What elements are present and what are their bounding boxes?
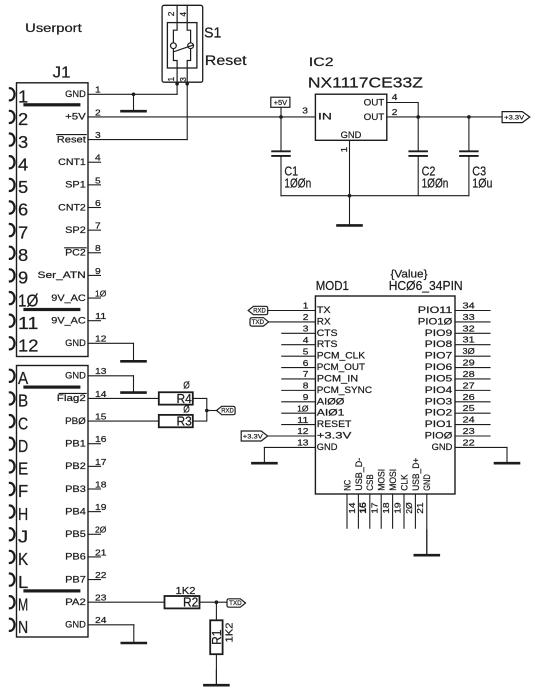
- J1 contact arc row J: [10, 528, 15, 540]
- wire J1 pin24 GND: [88, 624, 134, 626]
- svg-text:NX1117CE33Z: NX1117CE33Z: [308, 75, 423, 91]
- J1 contact arc row K: [10, 551, 15, 563]
- svg-text:MOSI: MOSI: [377, 469, 387, 491]
- J1 key bar between rows A-B: [23, 386, 80, 389]
- svg-text:USB_D-: USB_D-: [354, 458, 364, 491]
- junction GND tap: [132, 93, 136, 97]
- svg-text:29: 29: [463, 358, 476, 368]
- svg-text:4: 4: [178, 12, 188, 17]
- svg-text:1K2: 1K2: [176, 585, 196, 597]
- svg-text:J: J: [18, 526, 28, 546]
- svg-text:18: 18: [95, 479, 107, 489]
- J1 contact arc row 1: [10, 88, 15, 100]
- svg-text:5: 5: [18, 177, 28, 197]
- svg-text:Reset: Reset: [57, 134, 87, 144]
- svg-text:IN: IN: [318, 112, 332, 122]
- MOD1 bottom pin stub: [392, 494, 394, 528]
- capacitor C3 top wire: [468, 117, 470, 151]
- svg-text:+5V: +5V: [274, 100, 288, 107]
- wire ground rail under regulator: [281, 195, 469, 197]
- svg-text:25: 25: [463, 403, 476, 413]
- svg-text:AIØ1: AIØ1: [317, 408, 345, 418]
- svg-text:GND: GND: [432, 442, 453, 452]
- wire +5V rail: J1 pin2 to IC2 IN: [88, 116, 315, 118]
- J1 pin stub 11: [88, 320, 101, 322]
- svg-text:AIØØ: AIØØ: [317, 396, 345, 406]
- svg-text:HCØ6_34PIN: HCØ6_34PIN: [389, 279, 463, 293]
- wire +3.3V tag to pin12: [268, 435, 316, 437]
- svg-text:R3: R3: [177, 414, 192, 428]
- svg-text:21: 21: [415, 502, 425, 514]
- MOD1 right pin stub 27: [455, 389, 490, 391]
- wire R4 to junction: [193, 398, 207, 410]
- wire junction down to R1: [215, 602, 217, 620]
- svg-text:M: M: [18, 594, 28, 614]
- svg-text:28: 28: [463, 369, 476, 379]
- +3.3V supply tag (regulator output): [502, 112, 530, 123]
- junction OUT/C2: [416, 115, 420, 119]
- MOD1 bottom pin stub: [414, 494, 416, 528]
- svg-text:PIO1Ø: PIO1Ø: [418, 316, 453, 326]
- svg-text:Reset: Reset: [205, 53, 247, 68]
- svg-text:6: 6: [18, 200, 28, 220]
- svg-text:23: 23: [95, 593, 107, 603]
- svg-text:C: C: [18, 413, 28, 433]
- wire J1 pin15 PB0 to R3: [88, 420, 159, 422]
- MOD1 right pin stub 34: [455, 310, 490, 312]
- svg-text:MOSI: MOSI: [388, 469, 398, 491]
- svg-text:Flag2: Flag2: [57, 393, 86, 403]
- svg-text:1ØØn: 1ØØn: [284, 176, 311, 190]
- connector J1 box upper (pins 1-12): [17, 83, 89, 357]
- svg-text:13: 13: [95, 366, 107, 376]
- svg-text:22: 22: [463, 437, 476, 447]
- J1 contact arc row M: [10, 596, 15, 608]
- MOD1 left pin stub 8: [282, 389, 316, 391]
- capacitor C2 bottom wire: [417, 156, 419, 196]
- svg-text:NC: NC: [342, 479, 352, 490]
- svg-text:1: 1: [166, 77, 176, 82]
- junction R3/R4: [205, 409, 209, 413]
- svg-text:PIO6: PIO6: [425, 362, 453, 372]
- svg-text:1Ø: 1Ø: [297, 403, 309, 413]
- J1 contact arc row 10: [10, 292, 15, 304]
- J1 pin stub 22: [88, 579, 101, 581]
- svg-text:GND: GND: [341, 130, 362, 140]
- overline for Flag2: [59, 392, 86, 394]
- svg-text:H: H: [18, 504, 28, 524]
- svg-text:PIO5: PIO5: [425, 373, 453, 383]
- svg-text:L: L: [18, 572, 28, 592]
- svg-text:12: 12: [95, 334, 107, 344]
- MOD1 left pin stub 5: [282, 355, 316, 357]
- J1 key bar between rows 1-2: [23, 103, 80, 106]
- svg-text:PBØ: PBØ: [65, 416, 86, 426]
- MOD1 right pin stub 25: [455, 412, 490, 414]
- svg-text:GND: GND: [65, 620, 86, 630]
- capacitor C1 bottom wire: [280, 156, 282, 196]
- svg-text:3: 3: [303, 324, 309, 334]
- svg-text:7: 7: [303, 369, 309, 379]
- svg-text:2: 2: [166, 11, 176, 16]
- wire MOD1 bottom GND pin: [426, 494, 428, 554]
- capacitor C2 top wire: [417, 117, 419, 151]
- MOD1 bottom pin stub: [369, 494, 371, 528]
- wire IC2 OUT4: [387, 103, 418, 117]
- MOD1 bottom pin stub: [357, 494, 359, 528]
- svg-text:15: 15: [358, 502, 368, 514]
- switch S1 actuator: [174, 45, 194, 52]
- svg-text:1K2: 1K2: [224, 622, 236, 642]
- svg-text:9V_AC: 9V_AC: [51, 293, 86, 303]
- svg-text:27: 27: [463, 380, 476, 390]
- svg-text:PIO3: PIO3: [425, 396, 453, 406]
- ground at MOD1 pin13: [263, 447, 265, 463]
- J1 contact arc row 5: [10, 179, 15, 191]
- svg-text:PC2: PC2: [65, 248, 86, 258]
- svg-text:11: 11: [95, 311, 107, 321]
- MOD1 left pin stub 7: [282, 378, 316, 380]
- svg-text:R2: R2: [183, 596, 198, 610]
- MOD1 right pin stub 29: [455, 367, 490, 369]
- svg-text:PA2: PA2: [65, 597, 86, 607]
- svg-text:22: 22: [95, 570, 107, 580]
- svg-text:4: 4: [303, 335, 309, 345]
- svg-text:GND: GND: [65, 89, 86, 99]
- svg-text:24: 24: [463, 415, 476, 425]
- svg-text:18: 18: [381, 502, 391, 514]
- wire J1 pin12 GND: [88, 342, 134, 344]
- MOD1 right pin stub 32: [455, 332, 490, 334]
- svg-text:2Ø: 2Ø: [95, 525, 107, 535]
- junction GND rail: [348, 194, 352, 198]
- svg-text:1ØØn: 1ØØn: [422, 176, 449, 190]
- MOD1 left pin stub 9: [282, 401, 316, 403]
- TXD tag at MOD1 RX: [250, 318, 269, 326]
- wire R1 to ground: [215, 654, 217, 684]
- ground at J1 pin13: [133, 376, 135, 393]
- switch S1 contact circle right: [188, 43, 194, 49]
- svg-text:RXD: RXD: [221, 408, 234, 415]
- svg-text:PCM_IN: PCM_IN: [317, 373, 358, 383]
- svg-text:PB4: PB4: [65, 506, 86, 516]
- svg-text:GND: GND: [422, 474, 432, 491]
- svg-text:11: 11: [297, 415, 309, 425]
- svg-text:14: 14: [95, 389, 107, 399]
- svg-text:PIO8: PIO8: [425, 339, 453, 349]
- wire MOD1 pin13 GND: [264, 446, 315, 448]
- J1 contact arc row 7: [10, 224, 15, 236]
- wire J1 pin3 Reset to S1: [88, 139, 187, 141]
- capacitor C1 plates: [272, 150, 290, 152]
- svg-text:CLK: CLK: [399, 474, 409, 491]
- svg-text:PB6: PB6: [65, 552, 86, 562]
- svg-text:2: 2: [392, 107, 398, 117]
- overline for Reset: [57, 134, 86, 136]
- svg-text:3: 3: [302, 105, 308, 115]
- ground at J1 pin12: [133, 343, 135, 361]
- J1 pin stub 18: [88, 488, 101, 490]
- switch S1 pin 3 (bottom right): [187, 49, 190, 83]
- svg-text:5: 5: [303, 346, 309, 356]
- svg-text:23: 23: [463, 426, 476, 436]
- junction +5V/C1: [279, 115, 283, 119]
- svg-text:PB2: PB2: [65, 461, 86, 471]
- svg-text:2Ø: 2Ø: [404, 502, 414, 514]
- svg-text:16: 16: [95, 434, 107, 444]
- svg-text:GND: GND: [65, 338, 86, 348]
- J1 pin stub 19: [88, 511, 101, 513]
- svg-text:8: 8: [18, 245, 28, 265]
- J1 pin stub 6: [88, 207, 101, 209]
- svg-text:9: 9: [18, 268, 28, 288]
- wire IC2 GND pin down: [349, 140, 351, 195]
- svg-text:TXD: TXD: [229, 600, 242, 607]
- J1 pin stub 4: [88, 161, 101, 163]
- MOD1 left pin stub 11: [282, 424, 316, 426]
- MOD1 right pin stub 23: [455, 435, 490, 437]
- connector J1 box lower (pins 13-24 / A-N): [17, 366, 89, 638]
- J1 contact arc row 12: [10, 337, 15, 349]
- svg-text:MOD1: MOD1: [316, 279, 349, 293]
- svg-text:4: 4: [392, 92, 398, 102]
- J1 contact arc row L: [10, 574, 15, 586]
- ground below R1: [215, 670, 217, 685]
- capacitor C3 plates: [460, 150, 478, 152]
- svg-text:PIOØ: PIOØ: [425, 431, 453, 441]
- ground below IC2: [349, 196, 351, 226]
- svg-text:7: 7: [95, 221, 101, 231]
- J1 pin stub 20: [88, 533, 101, 535]
- wire IC2 OUT2 to +3.3V tag: [387, 116, 502, 118]
- resistor R1 (vertical): [210, 620, 222, 654]
- J1 contact arc row 11: [10, 315, 15, 327]
- svg-text:PCM_SYNC: PCM_SYNC: [317, 385, 373, 395]
- svg-text:GND: GND: [317, 442, 338, 452]
- svg-text:3Ø: 3Ø: [463, 346, 476, 356]
- wire R2 to TXD tag: [200, 601, 228, 603]
- resistor R4: [159, 392, 193, 404]
- svg-text:12: 12: [297, 426, 309, 436]
- J1 contact arc row 3: [10, 134, 15, 146]
- svg-text:PIO2: PIO2: [425, 408, 453, 418]
- J1 contact arc row N: [10, 619, 15, 631]
- svg-text:J1: J1: [53, 64, 71, 81]
- svg-text:32: 32: [463, 323, 476, 333]
- svg-text:PB1: PB1: [65, 439, 86, 449]
- J1 pin stub 21: [88, 556, 101, 558]
- svg-text:PCM_OUT: PCM_OUT: [317, 362, 366, 372]
- J1 key bar between rows L-M: [23, 589, 80, 592]
- J1 pin stub 9: [88, 274, 101, 276]
- svg-text:GND: GND: [65, 371, 86, 381]
- svg-text:6: 6: [303, 358, 309, 368]
- svg-text:24: 24: [95, 615, 107, 625]
- svg-text:1Ø: 1Ø: [18, 290, 39, 310]
- J1 contact arc row 6: [10, 201, 15, 213]
- RXD tag at MOD1 TX: [248, 306, 268, 314]
- svg-text:OUT: OUT: [364, 97, 385, 107]
- MOD1 left pin stub 4: [282, 344, 316, 346]
- svg-text:PCM_CLK: PCM_CLK: [317, 351, 365, 361]
- svg-text:Ø: Ø: [183, 404, 190, 416]
- svg-text:1: 1: [303, 301, 309, 311]
- svg-text:PIO7: PIO7: [425, 351, 453, 361]
- J1 contact arc row E: [10, 460, 15, 472]
- svg-text:6: 6: [95, 198, 101, 208]
- svg-text:USB_D+: USB_D+: [411, 458, 421, 491]
- svg-text:OUT: OUT: [364, 112, 385, 122]
- svg-text:3: 3: [18, 132, 28, 152]
- wire R3 to junction: [193, 411, 207, 422]
- wire J1 pin23 PA2 to R2: [88, 601, 165, 603]
- module MOD1 box: [315, 296, 455, 494]
- svg-text:34: 34: [463, 301, 476, 311]
- J1 contact arc row 4: [10, 156, 15, 168]
- J1 pin stub 17: [88, 465, 101, 467]
- ground at J1 pin24: [133, 625, 135, 643]
- svg-text:RESET: RESET: [317, 419, 352, 429]
- svg-text:PIO11: PIO11: [418, 305, 453, 315]
- svg-text:PIO9: PIO9: [425, 328, 453, 338]
- svg-text:R1: R1: [210, 630, 224, 645]
- J1 pin stub 5: [88, 184, 101, 186]
- junction OUT/C3: [467, 115, 471, 119]
- svg-text:Ser_ATN: Ser_ATN: [38, 270, 86, 280]
- svg-text:33: 33: [463, 312, 476, 322]
- capacitor C2 plates: [409, 150, 427, 152]
- svg-text:5: 5: [95, 175, 101, 185]
- J1 contact arc row C: [10, 415, 15, 427]
- svg-text:Ø: Ø: [183, 380, 190, 392]
- svg-text:21: 21: [95, 547, 107, 557]
- svg-text:PB3: PB3: [65, 484, 86, 494]
- switch S1 pin 2 (top left): [173, 5, 177, 43]
- svg-text:CNT2: CNT2: [58, 202, 86, 212]
- svg-text:E: E: [18, 459, 28, 479]
- RXD tag at R3/R4: [217, 406, 236, 414]
- svg-text:PIO1: PIO1: [425, 419, 453, 429]
- ground at MOD1 pin22: [506, 447, 508, 463]
- switch S1 pin 4 (top right): [187, 5, 190, 43]
- svg-text:8: 8: [95, 243, 101, 253]
- J1 pin stub 8: [88, 252, 101, 254]
- svg-text:4: 4: [95, 153, 101, 163]
- svg-text:2: 2: [95, 107, 101, 117]
- ground at MOD1 bottom GND: [426, 530, 428, 555]
- svg-text:N: N: [18, 617, 28, 637]
- svg-text:19: 19: [392, 502, 402, 514]
- svg-text:31: 31: [463, 335, 476, 345]
- junction S1 pin1: [175, 82, 179, 86]
- svg-text:26: 26: [463, 392, 476, 402]
- svg-text:RXD: RXD: [253, 308, 266, 315]
- resistor R3: [159, 415, 193, 427]
- svg-text:SP2: SP2: [65, 225, 86, 235]
- MOD1 bottom pin stub: [403, 494, 405, 528]
- J1 contact arc row 2: [10, 111, 15, 123]
- wire RXD to pin1: [268, 310, 316, 312]
- wire junction to RXD tag: [207, 410, 217, 412]
- switch S1 outer box: [162, 5, 203, 82]
- svg-text:SP1: SP1: [65, 180, 86, 190]
- svg-text:19: 19: [95, 502, 107, 512]
- svg-text:D: D: [18, 436, 28, 456]
- svg-text:15: 15: [95, 411, 107, 421]
- J1 pin stub 10: [88, 297, 101, 299]
- MOD1 left pin stub 6: [282, 367, 316, 369]
- wire J1 pin14 Flag2 to R4: [88, 397, 159, 399]
- wire TXD to pin2: [269, 321, 316, 323]
- junction S1 pin3: [185, 82, 189, 86]
- svg-text:+3.3V: +3.3V: [243, 433, 264, 440]
- overline for PC2: [65, 247, 87, 249]
- svg-text:PB5: PB5: [65, 529, 86, 539]
- svg-text:9: 9: [95, 266, 101, 276]
- MOD1 right pin stub 31: [455, 344, 490, 346]
- svg-text:Userport: Userport: [25, 23, 83, 35]
- svg-text:CNT1: CNT1: [58, 157, 86, 167]
- +5V supply tag: [271, 97, 290, 107]
- capacitor C1 top wire: [280, 117, 282, 151]
- svg-text:4: 4: [18, 154, 28, 174]
- svg-text:K: K: [18, 549, 28, 569]
- svg-text:+3.3V: +3.3V: [504, 114, 525, 121]
- MOD1 bottom pin stub: [380, 494, 382, 528]
- svg-text:13: 13: [297, 438, 309, 448]
- svg-text:17: 17: [370, 502, 380, 514]
- J1 contact arc row D: [10, 438, 15, 450]
- svg-text:IC2: IC2: [309, 55, 334, 69]
- svg-text:PB7: PB7: [65, 574, 86, 584]
- svg-text:A: A: [18, 368, 28, 388]
- switch S1 body box: [167, 23, 197, 68]
- svg-text:3: 3: [95, 130, 101, 140]
- svg-text:9V_AC: 9V_AC: [51, 316, 86, 326]
- +3.3V tag at MOD1 pin12: [241, 431, 268, 441]
- J1 contact arc row A: [10, 370, 15, 382]
- wire S1 pin1 to GND row: [176, 84, 178, 95]
- svg-text:S1: S1: [204, 26, 221, 42]
- J1 contact arc row H: [10, 506, 15, 518]
- MOD1 right pin stub 30: [455, 355, 490, 357]
- J1 pin stub 16: [88, 443, 101, 445]
- resistor R2: [165, 596, 200, 608]
- svg-text:11: 11: [18, 313, 38, 333]
- svg-text:+3.3V: +3.3V: [317, 431, 352, 441]
- svg-text:+5V: +5V: [65, 112, 86, 122]
- svg-text:1Ø: 1Ø: [95, 288, 107, 298]
- svg-text:9: 9: [303, 392, 309, 402]
- svg-text:RX: RX: [317, 316, 331, 326]
- MOD1 right pin stub 33: [455, 321, 490, 323]
- svg-text:17: 17: [95, 457, 107, 467]
- svg-text:CTS: CTS: [317, 328, 338, 338]
- MOD1 right pin stub 26: [455, 401, 490, 403]
- svg-text:1: 1: [95, 85, 101, 95]
- switch S1 contact circle left: [171, 43, 177, 49]
- wire S1 pin3 down to Reset row: [186, 84, 188, 140]
- junction R2/R1: [215, 600, 219, 604]
- TXD tag at R2: [227, 599, 246, 607]
- svg-text:B: B: [18, 391, 28, 411]
- svg-text:3: 3: [178, 77, 188, 82]
- svg-text:F: F: [18, 481, 28, 501]
- MOD1 bottom pin stub: [346, 494, 348, 528]
- MOD1 left pin stub 10: [282, 412, 316, 414]
- svg-text:RTS: RTS: [317, 339, 338, 349]
- J1 contact arc row F: [10, 483, 15, 495]
